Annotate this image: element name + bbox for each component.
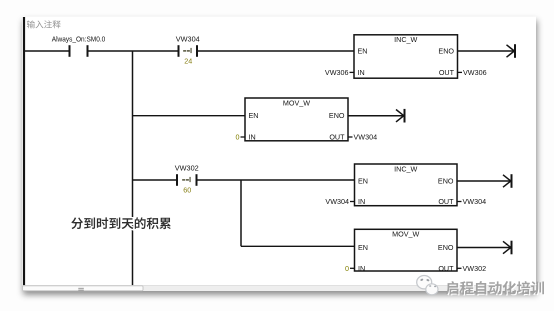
svg-text:24: 24 — [184, 57, 192, 66]
svg-text:MOV_W: MOV_W — [392, 230, 419, 239]
svg-text:VW306: VW306 — [325, 68, 349, 77]
svg-text:OUT: OUT — [439, 68, 455, 77]
svg-text:INC_W: INC_W — [394, 164, 417, 173]
svg-text:Always_On:SM0.0: Always_On:SM0.0 — [52, 34, 106, 43]
svg-text:0: 0 — [345, 264, 349, 273]
svg-text:VW304: VW304 — [325, 197, 349, 206]
svg-text:ENO: ENO — [438, 177, 454, 186]
svg-text:VW304: VW304 — [463, 197, 487, 206]
svg-text:ENO: ENO — [329, 111, 345, 120]
svg-text:INC_W: INC_W — [394, 35, 417, 44]
svg-text:60: 60 — [183, 186, 191, 195]
svg-text:VW304: VW304 — [176, 34, 200, 43]
svg-text:EN: EN — [358, 47, 368, 56]
svg-text:VW302: VW302 — [463, 264, 487, 273]
svg-text:IN: IN — [249, 133, 256, 142]
svg-text:IN: IN — [358, 264, 365, 273]
svg-text:MOV_W: MOV_W — [283, 98, 310, 107]
svg-text:IN: IN — [358, 197, 365, 206]
svg-text:OUT: OUT — [438, 264, 454, 273]
svg-text:IN: IN — [358, 68, 365, 77]
svg-text:0: 0 — [236, 133, 240, 142]
svg-text:EN: EN — [249, 111, 259, 120]
svg-text:VW304: VW304 — [354, 133, 378, 142]
svg-text:VW302: VW302 — [175, 163, 199, 172]
svg-text:EN: EN — [358, 177, 368, 186]
svg-text:EN: EN — [358, 243, 368, 252]
svg-text:OUT: OUT — [329, 133, 345, 142]
svg-text:OUT: OUT — [438, 197, 454, 206]
svg-text:VW306: VW306 — [463, 68, 487, 77]
svg-text:ENO: ENO — [438, 243, 454, 252]
svg-text:ENO: ENO — [438, 47, 454, 56]
